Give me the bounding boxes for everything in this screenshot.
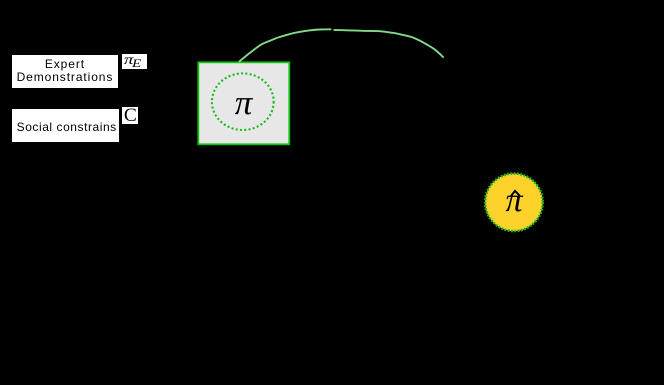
label pi_E: [122, 54, 147, 69]
label C: [122, 107, 138, 124]
hat accent over pi-hat: [511, 191, 520, 196]
symbol pi in environment box: [230, 85, 258, 120]
arc arrow right half (apex to tip): [334, 30, 444, 58]
arc arrow left half (environment box to apex): [239, 29, 331, 62]
policy circle pi-hat (yellow, dotted green border): [485, 174, 543, 232]
environment box (green border, gray fill): [198, 62, 289, 144]
box: Expert Demonstrations: [12, 55, 119, 89]
symbol pi-hat in policy circle: [500, 184, 528, 218]
dotted circle around pi: [212, 73, 274, 130]
box: Social constrains: [12, 109, 119, 142]
